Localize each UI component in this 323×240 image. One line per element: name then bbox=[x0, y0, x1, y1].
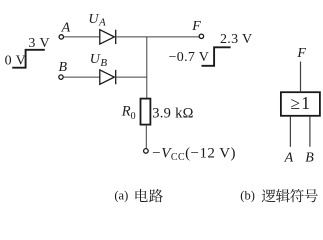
caption char dian bbox=[136, 189, 148, 202]
wire junction vertical to resistor bbox=[146, 37, 148, 98]
wire diode UA cathode to node F bbox=[114, 36, 199, 38]
svg-text:3.9 kΩ: 3.9 kΩ bbox=[152, 105, 194, 121]
svg-text:(b): (b) bbox=[240, 188, 255, 202]
OR gate symbol U1 bbox=[281, 92, 320, 116]
svg-text:3 V: 3 V bbox=[28, 36, 50, 51]
svg-text:(a): (a) bbox=[114, 188, 128, 202]
diode UB bbox=[100, 70, 116, 84]
caption char hao bbox=[304, 189, 317, 202]
svg-text:B: B bbox=[59, 60, 68, 75]
wire input A to diode UA anode bbox=[64, 36, 100, 38]
wire gate input A bbox=[289, 117, 291, 147]
caption char ji bbox=[276, 189, 290, 202]
wire diode UB cathode to junction bbox=[114, 76, 147, 78]
svg-text:F: F bbox=[296, 46, 306, 61]
svg-text:−VCC(−12 V): −VCC(−12 V) bbox=[152, 145, 236, 163]
caption char lu bbox=[149, 189, 163, 202]
svg-text:−0.7 V: −0.7 V bbox=[169, 50, 210, 65]
resistor R0 bbox=[141, 99, 151, 125]
caption char luo bbox=[262, 189, 276, 202]
wire resistor to -VCC terminal bbox=[145, 125, 147, 149]
input waveform step 0V to 3V bbox=[12, 50, 45, 68]
svg-text:A: A bbox=[61, 21, 71, 36]
input terminal B bbox=[59, 75, 63, 79]
power terminal -VCC bbox=[144, 149, 149, 154]
output terminal F bbox=[199, 34, 203, 38]
svg-text:A: A bbox=[284, 150, 294, 165]
svg-text:≥1: ≥1 bbox=[290, 93, 311, 113]
wire gate output to F bbox=[300, 62, 302, 93]
svg-text:F: F bbox=[191, 19, 201, 34]
wire input B to diode UB anode bbox=[63, 76, 99, 78]
svg-text:2.3 V: 2.3 V bbox=[220, 32, 252, 47]
diode UA bbox=[100, 30, 116, 44]
svg-text:0 V: 0 V bbox=[5, 53, 27, 68]
output waveform step -0.7V to 2.3V bbox=[202, 47, 231, 66]
svg-text:B: B bbox=[305, 150, 314, 165]
input terminal A bbox=[59, 35, 63, 39]
wire gate input B bbox=[309, 117, 311, 147]
caption char fu bbox=[290, 189, 304, 202]
